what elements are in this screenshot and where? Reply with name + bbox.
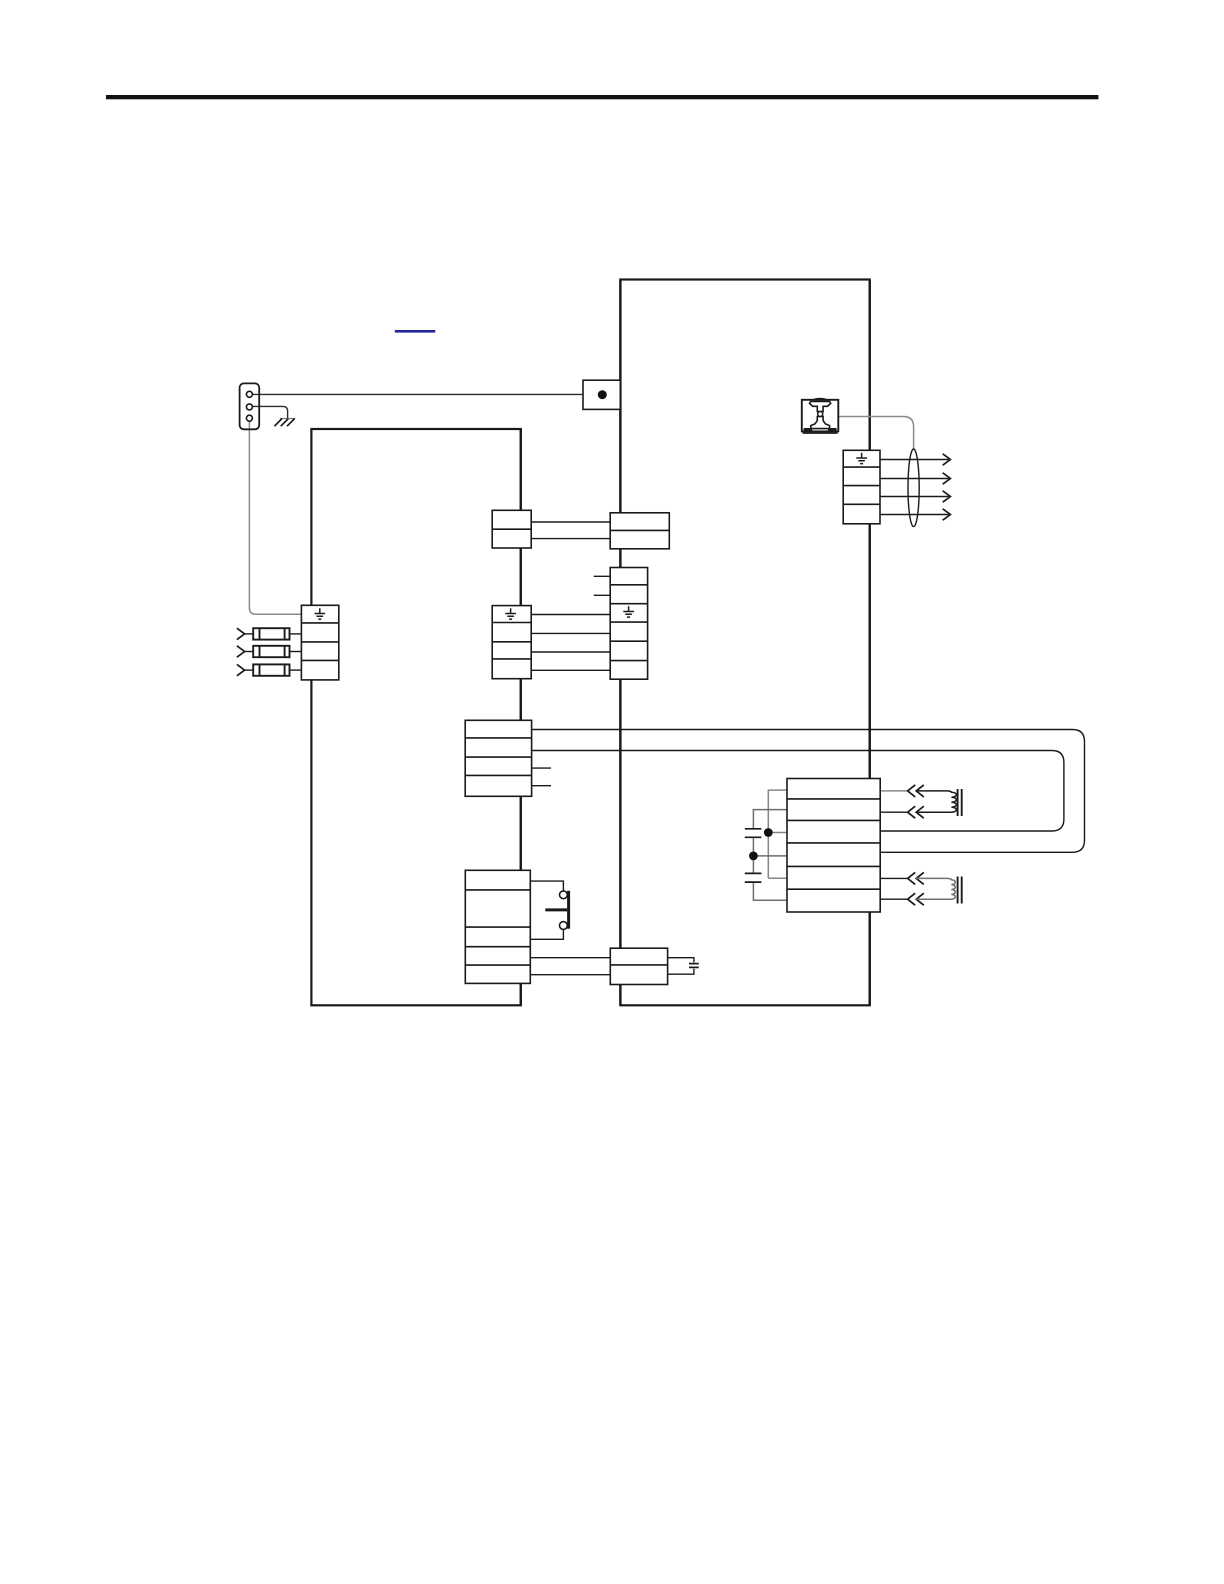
wire: cable out 1 with arrow	[880, 459, 949, 461]
wire: stub pin 1 of tall connector	[594, 575, 611, 577]
wire: stub pin 3 of mid-left connector	[532, 767, 551, 769]
PCB box left (power supply unit outline)	[311, 429, 520, 1005]
junction dot node 2	[749, 852, 758, 861]
capacitor C3 (left of transformer block, lower)	[745, 873, 762, 882]
wire: lower transformer lead 1	[880, 877, 907, 879]
ground pin symbol in connector CN-C	[505, 608, 516, 619]
hyperlink underline	[395, 330, 435, 333]
wire: upper transformer secondary lead black	[880, 811, 907, 813]
wire: cable out 4 with arrow	[880, 514, 949, 516]
wire: harness line 2 between middle connectors	[531, 632, 610, 634]
connector CN-A left half (top pair, on left box edge)	[492, 510, 531, 548]
header rule	[106, 95, 1098, 99]
arrow out 1	[943, 454, 951, 465]
capacitor C2 (left of transformer block, upper)	[745, 829, 762, 838]
wire: stub pin 2 of tall connector	[594, 594, 611, 596]
wire: between top connector pair row 1	[531, 521, 610, 523]
wire: bottom interconnect row 5	[530, 974, 610, 976]
transformer T2 core	[957, 877, 959, 904]
junction box on right box edge (AC entry)	[583, 380, 620, 409]
cable bundle ellipse	[908, 449, 919, 527]
connector CN-F bottom-left (5-pin, on left box edge)	[465, 870, 530, 983]
wire: long loop A from mid-left connector around to transformer block row 4	[532, 730, 1085, 853]
AC power inlet connector (3-pin)	[240, 383, 260, 429]
wire: spine of right box right edge x=869.7	[869, 280, 871, 1006]
thermostat/sensor component (spool icon)	[802, 399, 839, 434]
ground pin symbol in connector CN-D	[623, 606, 634, 617]
transformer T2 winding	[916, 878, 955, 899]
wire: cable out 2 with arrow	[880, 478, 949, 480]
wire: cable out 3 with arrow	[880, 496, 949, 498]
wire: harness line 4 between middle connectors	[531, 669, 610, 671]
wire: gray tap to transformer block row 4	[753, 855, 787, 857]
chassis ground symbol	[274, 419, 295, 427]
transformer T1 winding	[916, 791, 957, 812]
ground pin symbol in fuse block	[315, 608, 326, 619]
switch SW1 (microswitch)	[545, 891, 568, 930]
wire: capacitor loop at bottom-right connector	[668, 958, 694, 975]
wire: harness line 1 between middle connectors	[531, 614, 610, 616]
wire: between top connector pair row 2	[531, 538, 610, 540]
wire: spine of right box left edge x=620.4	[619, 280, 621, 1006]
wire: spool lead to cable bundle	[839, 417, 914, 450]
connector CN-E mid-left (4-pin, on left box edge)	[465, 720, 531, 796]
connector CN-G bottom-right (2-pin, on right box edge)	[610, 948, 667, 984]
wire: AC earth from inlet pin 3 down to fuse-block connector	[249, 421, 301, 614]
wire: stub pin 4 of mid-left connector	[532, 785, 551, 787]
arrow out 3	[943, 491, 951, 502]
junction dot at AC entry box	[598, 390, 607, 399]
connector CN-B fuse block (4-pin, on left box edge)	[301, 605, 338, 680]
transformer T2 connector chevrons lower	[908, 872, 916, 884]
connector CN-J cable-out block (4-pin, on right box right edge)	[843, 450, 880, 524]
wire: switch feed from bottom-left connector row 1	[530, 881, 563, 891]
junction dot node 1	[764, 828, 773, 837]
fuse F1	[237, 628, 301, 639]
fuse F2	[237, 646, 301, 657]
connector CN-C (4-pin, lower-left of pair)	[492, 606, 531, 679]
ground pin symbol in cable-out block	[856, 453, 867, 464]
wire: AC neutral from inlet pin 2 to chassis ground	[252, 406, 287, 418]
wire: lower transformer lead 2	[880, 898, 907, 900]
wire: harness line 3 between middle connectors	[531, 651, 610, 653]
wire: gray tap to transformer block row 3	[768, 832, 787, 834]
transformer T1 core	[957, 789, 959, 816]
connector CN-D tall (6-pin, on right box edge)	[610, 568, 647, 680]
wire: bottom interconnect row 4	[530, 957, 610, 959]
transformer T1 connector chevrons upper	[908, 785, 916, 797]
wire: upper transformer primary lead gray	[880, 790, 907, 792]
arrow out 2	[943, 473, 951, 484]
wire: long loop B from mid-left connector around to transformer block row 3	[532, 751, 1064, 832]
wire: capacitor chain row2 to row6 left of transformer block	[753, 810, 787, 901]
wire: AC line from inlet pin 1 to junction box	[252, 393, 583, 395]
wire: switch return to bottom-left connector row 3	[530, 930, 563, 940]
connector CN-A right half (top pair, on right box edge)	[610, 513, 669, 549]
wire: spine of left box right edge x=520.8	[520, 429, 522, 1005]
PCB box right (main unit outline)	[620, 280, 869, 1006]
arrow out 4	[943, 509, 951, 520]
wire: gray loop row1 to row5 left of transformer block	[768, 790, 787, 878]
fuse F3	[237, 664, 301, 675]
connector CN-H transformer block (6-pin, on right box right edge)	[787, 779, 880, 913]
capacitor C1 (at bottom-right connector)	[689, 964, 699, 968]
